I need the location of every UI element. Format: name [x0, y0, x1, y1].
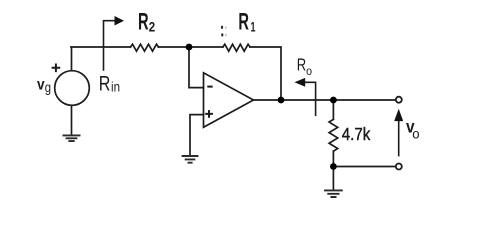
svg-text:o: o [306, 64, 312, 78]
wire op-amp output [254, 99, 396, 101]
svg-text:v: v [37, 76, 45, 93]
svg-text:1: 1 [251, 19, 256, 34]
op-amp plus sign [205, 110, 213, 118]
op-amp U1 [204, 73, 254, 128]
wire R1 to feedback corner and down [250, 47, 281, 100]
wire noninverting input to ground [190, 115, 204, 156]
op-amp minus sign [207, 86, 212, 88]
ground below source [63, 135, 81, 141]
wire load branch bottom [332, 151, 334, 166]
svg-text:in: in [111, 79, 120, 95]
wire bottom output [333, 166, 395, 168]
svg-text:R: R [297, 55, 306, 75]
plus sign of source [52, 64, 61, 73]
Ro indicator arrow [305, 82, 316, 116]
terminal top [396, 97, 402, 103]
wire top of source [71, 47, 73, 71]
wire load branch top [332, 100, 334, 119]
wire junction down to inverting input [189, 47, 204, 88]
wire bottom node to ground [332, 167, 334, 190]
wire main input horizontal [71, 46, 131, 48]
vo indicator arrow [398, 120, 400, 157]
artifact colon dots [221, 26, 223, 29]
svg-text:R: R [238, 9, 249, 36]
Rin indicator arrow [104, 21, 116, 71]
svg-text:R: R [99, 71, 111, 95]
wire R2 to junction [158, 46, 223, 48]
svg-text:R: R [138, 9, 149, 36]
terminal bottom [396, 164, 402, 170]
resistor R2 [131, 44, 159, 51]
resistor R1 [223, 44, 250, 51]
svg-text:o: o [412, 126, 420, 141]
voltage source Vg [55, 71, 90, 106]
svg-text:g: g [45, 79, 51, 95]
node junction load bottom [330, 163, 337, 170]
ground below op-amp plus input [182, 156, 199, 163]
ground below load [324, 190, 343, 197]
node junction at R2/R1 [186, 44, 193, 51]
svg-text:2: 2 [149, 19, 155, 34]
svg-text:4.7k: 4.7k [342, 124, 371, 144]
resistor RL 4.7k [329, 119, 338, 151]
node junction feedback/output [278, 97, 285, 104]
node junction load top [330, 97, 337, 104]
wire source bottom to ground [71, 105, 73, 134]
